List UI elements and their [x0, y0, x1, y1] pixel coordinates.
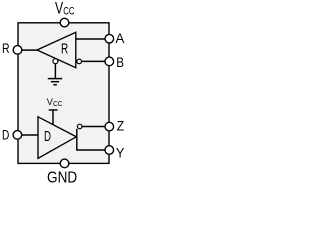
- ground stem: [54, 64, 56, 79]
- ground bar 3: [53, 84, 57, 86]
- wire Z output: [82, 126, 106, 128]
- svg-text:D: D: [2, 127, 9, 143]
- receiver enable bubble: [53, 59, 58, 64]
- wire D pin to driver base: [19, 134, 39, 136]
- svg-text:R: R: [2, 40, 10, 56]
- driver Vcc label (small): [47, 97, 63, 108]
- svg-text:R: R: [61, 40, 68, 57]
- inversion bubble on B input: [77, 59, 82, 64]
- D pin: [13, 131, 22, 140]
- A pin: [105, 34, 114, 43]
- svg-text:Y: Y: [116, 145, 125, 161]
- inversion bubble on Z output: [77, 124, 82, 129]
- driver Vcc T-bar: [49, 109, 58, 111]
- svg-text:V: V: [55, 0, 63, 18]
- wire Y output: [77, 149, 106, 151]
- Y pin: [105, 146, 114, 155]
- wire B input: [82, 60, 106, 62]
- GND pin: [60, 159, 69, 168]
- receiver triangle R: [37, 32, 76, 67]
- wire R pin to receiver apex: [19, 49, 38, 51]
- Z pin: [105, 122, 114, 131]
- R pin: [13, 46, 22, 55]
- wire A input: [76, 38, 106, 40]
- Vcc label (top): [55, 0, 75, 18]
- svg-text:Z: Z: [117, 118, 125, 134]
- ground bar 1: [48, 78, 62, 80]
- driver triangle D: [38, 117, 76, 159]
- svg-text:CC: CC: [63, 6, 74, 18]
- svg-text:B: B: [116, 54, 124, 70]
- svg-text:GND: GND: [47, 170, 77, 185]
- wire driver output vertical branch: [76, 129, 78, 151]
- ground bar 2: [51, 81, 59, 83]
- svg-text:D: D: [44, 128, 51, 145]
- IC body box: [18, 23, 109, 164]
- B pin: [105, 57, 114, 66]
- driver Vcc stem: [52, 110, 54, 126]
- Vcc pin: [60, 18, 69, 27]
- svg-text:CC: CC: [53, 101, 63, 108]
- svg-text:A: A: [115, 30, 125, 46]
